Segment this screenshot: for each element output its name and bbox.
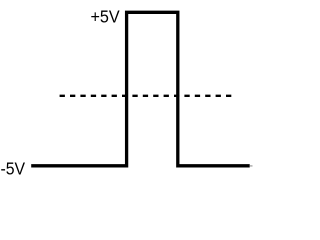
svg-text:-5V: -5V	[1, 158, 26, 178]
svg-text:+5V: +5V	[91, 7, 121, 27]
node 0V dashed reference line	[60, 95, 232, 97]
wire baseline gray end nub	[250, 165, 253, 167]
wire square-wave pulse	[31, 12, 250, 166]
